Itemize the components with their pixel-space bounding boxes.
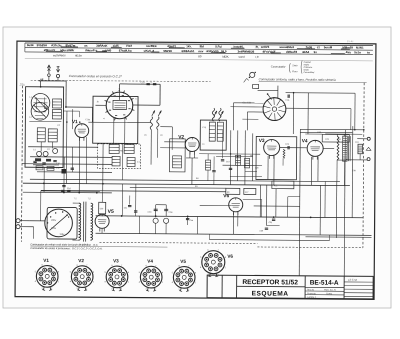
- svg-text:Conmutador sintonía, radio y f: Conmutador sintonía, radio y fono. Posic…: [259, 77, 336, 82]
- svg-text:Conmutador ondas en posición O: Conmutador ondas en posición O.C.2ª: [69, 74, 123, 78]
- svg-text:Fl47: Fl47: [126, 44, 132, 48]
- svg-text:220v: 220v: [51, 220, 57, 222]
- svg-text:FNO. N.L.R.: FNO. N.L.R.: [324, 290, 336, 292]
- svg-text:5s1o: 5s1o: [354, 50, 361, 54]
- svg-text:s1: s1: [317, 45, 321, 49]
- svg-text:C4b: C4b: [190, 220, 193, 222]
- svg-text:V1: V1: [43, 258, 49, 263]
- svg-text:R,: R,: [256, 45, 259, 49]
- svg-text:2: 2: [118, 88, 120, 92]
- svg-text:V5: V5: [108, 209, 114, 215]
- svg-text:5.Fui: 5.Fui: [215, 45, 222, 49]
- svg-text:15-4c: 15-4c: [347, 39, 354, 43]
- svg-text:3bRAnK: 3bRAnK: [96, 44, 108, 48]
- svg-text:V2: V2: [78, 258, 84, 263]
- svg-text:C20: C20: [255, 167, 258, 169]
- svg-text:3Vb25A: 3Vb25A: [37, 43, 49, 47]
- svg-text:to: to: [367, 50, 370, 54]
- svg-text:nev: nev: [198, 49, 203, 53]
- svg-text:V4: V4: [302, 138, 308, 144]
- svg-text:Lamina 1: Lamina 1: [307, 297, 317, 299]
- svg-text:R6: R6: [250, 155, 252, 157]
- svg-text:r,0: r,0: [255, 55, 259, 59]
- svg-text:dWeaF8: dWeaF8: [286, 50, 297, 54]
- svg-text:as: as: [84, 44, 88, 48]
- svg-text:Rev A1: Rev A1: [307, 288, 315, 291]
- svg-text:C29: C29: [260, 230, 263, 232]
- svg-text:12·5·52: 12·5·52: [348, 278, 358, 282]
- svg-text:80: 80: [198, 54, 202, 58]
- svg-text:Sinto: Sinto: [292, 64, 298, 67]
- svg-text:iMearFrs: iMearFrs: [85, 48, 97, 52]
- svg-text:V2: V2: [178, 134, 184, 140]
- svg-text:i26: i26: [250, 50, 254, 54]
- svg-text:6W8Aab1: 6W8Aab1: [181, 49, 194, 53]
- svg-text:4i15e: 4i15e: [75, 53, 82, 57]
- svg-text:C30: C30: [100, 208, 103, 210]
- svg-text:57taM,Ao: 57taM,Ao: [119, 49, 132, 53]
- svg-text:sn8V3: sn8V3: [261, 45, 270, 49]
- svg-text:1Kr.: 1Kr.: [186, 44, 192, 48]
- svg-text:C35: C35: [269, 222, 272, 224]
- svg-text:norRK4: norRK4: [146, 44, 157, 48]
- svg-text:9u34: 9u34: [27, 43, 34, 47]
- svg-text:M.W1: M.W1: [356, 46, 364, 50]
- svg-text:25c: 25c: [19, 83, 26, 87]
- svg-text:4dA4: 4dA4: [302, 50, 309, 54]
- svg-text:uuuu6Mu3: uuuu6Mu3: [280, 45, 295, 49]
- svg-text:Fono: Fono: [292, 71, 298, 73]
- svg-text:Comodidad: Comodidad: [304, 72, 315, 74]
- svg-text:V4: V4: [147, 259, 153, 264]
- svg-text:C31: C31: [124, 207, 127, 209]
- svg-text:BE-514-A: BE-514-A: [310, 280, 339, 287]
- svg-text:RECEPTOR 51/52: RECEPTOR 51/52: [242, 279, 298, 286]
- svg-text:ldl2K,: ldl2K,: [222, 55, 229, 59]
- svg-text:C19: C19: [226, 161, 229, 163]
- svg-text:V3: V3: [113, 258, 119, 263]
- svg-text:9ersM: 9ersM: [324, 45, 333, 49]
- svg-text:aducaWRr: aducaWRr: [60, 48, 75, 52]
- svg-text:125v: 125v: [51, 228, 57, 230]
- svg-text:a: a: [151, 82, 152, 84]
- svg-text:Comp: Comp: [326, 293, 333, 295]
- svg-text:V3: V3: [259, 138, 265, 144]
- svg-text:9s: 9s: [314, 50, 318, 54]
- svg-text:9Mr98: 9Mr98: [163, 49, 172, 53]
- svg-text:l8d: l8d: [200, 44, 204, 48]
- svg-text:A37c3u: A37c3u: [51, 43, 62, 47]
- svg-text:sond: sond: [238, 55, 245, 59]
- svg-text:Proyecto: Proyecto: [307, 292, 316, 295]
- svg-text:V1: V1: [72, 119, 78, 125]
- svg-text:AVu: AVu: [346, 50, 352, 54]
- svg-text:V6: V6: [227, 254, 233, 259]
- svg-text:aobM0: aobM0: [102, 48, 112, 52]
- svg-text:eu9VRn5i: eu9VRn5i: [53, 53, 66, 57]
- svg-text:ESQUEMA: ESQUEMA: [252, 290, 289, 297]
- svg-text:Conmutador: Conmutador: [271, 65, 286, 69]
- svg-text:V5: V5: [180, 259, 186, 264]
- svg-text:3nWWM6: 3nWWM6: [237, 50, 250, 54]
